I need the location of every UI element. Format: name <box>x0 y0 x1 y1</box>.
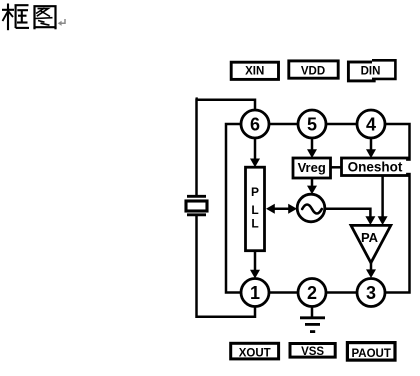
arrow pin5 to Vreg <box>307 138 317 158</box>
arrow PLL-osc double <box>266 204 297 214</box>
VSS label <box>290 344 335 359</box>
wire Oneshot to PA with arrow <box>378 175 388 225</box>
pin 3 <box>357 279 385 307</box>
Vreg block <box>293 158 331 178</box>
arrow PLL to pin1 <box>250 251 260 279</box>
svg-text:L: L <box>251 203 258 217</box>
wire XIN top <box>197 100 256 195</box>
svg-text:P: P <box>251 185 259 199</box>
PLL block <box>246 167 265 251</box>
title character 框 <box>2 4 29 31</box>
pin 5 <box>298 110 326 138</box>
svg-text:L: L <box>251 217 258 231</box>
svg-text:VSS: VSS <box>301 346 324 358</box>
svg-text:1: 1 <box>250 283 260 303</box>
crystal X1 <box>186 196 207 215</box>
svg-text:XOUT: XOUT <box>239 347 271 359</box>
svg-text:2: 2 <box>307 283 317 303</box>
XOUT label <box>231 343 279 359</box>
PAOUT label <box>347 343 395 361</box>
VDD label <box>289 61 338 78</box>
title character 图 <box>35 6 56 29</box>
pin 4 <box>357 110 385 138</box>
pin 1 <box>241 279 269 307</box>
Oneshot block <box>342 158 415 176</box>
pin 6 <box>241 110 269 138</box>
arrow Vreg to osc <box>307 178 317 194</box>
svg-text:5: 5 <box>307 115 317 135</box>
svg-text:PA: PA <box>361 230 379 245</box>
svg-text:XIN: XIN <box>245 65 264 77</box>
arrow pin4 to Oneshot <box>366 138 376 158</box>
svg-text:4: 4 <box>366 115 376 135</box>
svg-text:Oneshot: Oneshot <box>348 160 403 175</box>
DIN label <box>348 60 395 81</box>
ground <box>300 307 325 332</box>
XIN label <box>231 62 278 79</box>
wire XOUT bottom <box>197 216 256 317</box>
svg-text:PAOUT: PAOUT <box>351 348 390 360</box>
arrow pin6 to PLL <box>250 138 260 167</box>
paragraph return mark <box>58 19 65 26</box>
wire Vreg to Oneshot <box>329 166 343 169</box>
svg-text:3: 3 <box>366 283 376 303</box>
wire osc to PA with arrow <box>324 209 375 225</box>
svg-text:VDD: VDD <box>301 65 325 77</box>
chip boundary <box>226 124 410 293</box>
oscillator <box>297 194 325 222</box>
svg-text:6: 6 <box>250 115 260 135</box>
svg-text:Vreg: Vreg <box>298 160 326 175</box>
arrow PA to pin3 <box>366 262 376 278</box>
amplifier PA <box>351 225 391 262</box>
pin 2 <box>298 279 326 307</box>
svg-text:DIN: DIN <box>361 66 381 78</box>
